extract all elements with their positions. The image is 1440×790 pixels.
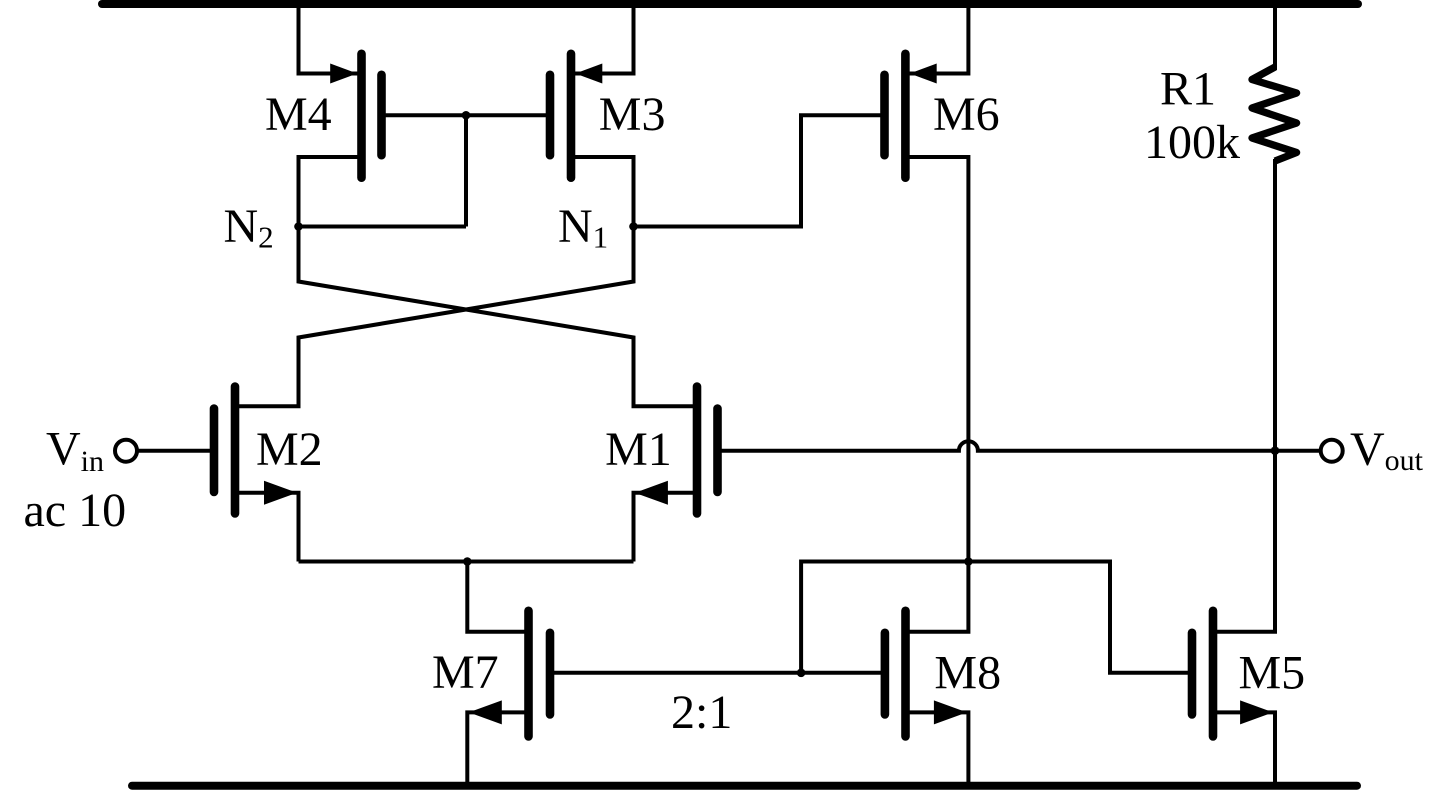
wire M4 source to VDD (299, 2, 362, 74)
node dot N2 (294, 222, 303, 231)
wire M3 source to VDD (571, 2, 634, 74)
wire N1 to M6 gate (634, 115, 885, 226)
transistor M1 (635, 387, 718, 514)
wire common tail line (299, 560, 634, 564)
node dot gate junction M4/M3 (462, 111, 471, 120)
svg-text:100k: 100k (1144, 116, 1240, 169)
wire M1 source to tail (634, 493, 698, 562)
svg-text:M3: M3 (599, 88, 666, 141)
node dot M7/M8 gate junction (797, 669, 806, 678)
node dot tail/M7 drain (463, 557, 472, 566)
svg-text:M2: M2 (256, 423, 323, 476)
wire N1 cross-couple to M2 drain (235, 227, 634, 407)
svg-text:N1: N1 (558, 200, 608, 255)
wire M6 source to VDD (905, 2, 968, 74)
wire M4 gate to M3 gate (382, 113, 551, 117)
wire gate loop to M6 drain and M5 gate (801, 562, 1192, 673)
svg-text:R1: R1 (1160, 62, 1216, 115)
svg-text:M5: M5 (1239, 646, 1306, 699)
VSS rail (bottom) (132, 782, 1357, 790)
node dot output/R1/M5 junction (1271, 446, 1280, 455)
transistor M3 (550, 54, 602, 178)
wire M4 drain to N2 (299, 157, 362, 227)
wire M7 drain to tail (467, 562, 528, 632)
svg-text:2:1: 2:1 (671, 686, 732, 739)
svg-text:M7: M7 (432, 646, 499, 699)
wire M3 drain to N1 (571, 157, 634, 227)
transistor M8 (885, 611, 967, 737)
wire M2 source to tail (235, 493, 299, 562)
svg-text:ac 10: ac 10 (24, 484, 127, 537)
wire M5 source to VSS (1213, 712, 1275, 787)
svg-text:M8: M8 (934, 646, 1001, 699)
svg-text:Vout: Vout (1350, 423, 1424, 477)
wire Vin to M2 gate (137, 449, 214, 453)
transistor M6 (885, 54, 937, 178)
wire M1 gate to Vout with hop over M6 drain (718, 441, 1321, 451)
wire M7 source to VSS (467, 712, 528, 787)
wire gate junction down to N2 line (464, 115, 468, 226)
node dot M6/M8 drain junction (964, 557, 973, 566)
transistor M2 (214, 387, 297, 514)
node dot N1 (629, 222, 638, 231)
node N2 wire (299, 225, 467, 229)
transistor M4 (330, 54, 381, 178)
svg-text:Vin: Vin (46, 423, 104, 478)
resistor R1 (1252, 2, 1297, 451)
wire M7 gate to M8 gate (550, 671, 885, 675)
wire N2 cross-couple to M1 drain (299, 227, 698, 407)
svg-text:M4: M4 (265, 88, 332, 141)
terminal Vout circle (1321, 440, 1343, 462)
VDD rail (top) (102, 0, 1358, 8)
wire M5 drain to output (1213, 451, 1275, 632)
transistor M7 (469, 611, 550, 737)
wire M8 source to VSS (906, 712, 969, 787)
svg-text:M6: M6 (933, 88, 1000, 141)
transistor M5 (1192, 611, 1273, 737)
wire M6 drain to M8 drain (905, 157, 968, 632)
terminal Vin circle (115, 440, 137, 462)
svg-text:N2: N2 (224, 200, 274, 255)
svg-text:M1: M1 (605, 423, 672, 476)
